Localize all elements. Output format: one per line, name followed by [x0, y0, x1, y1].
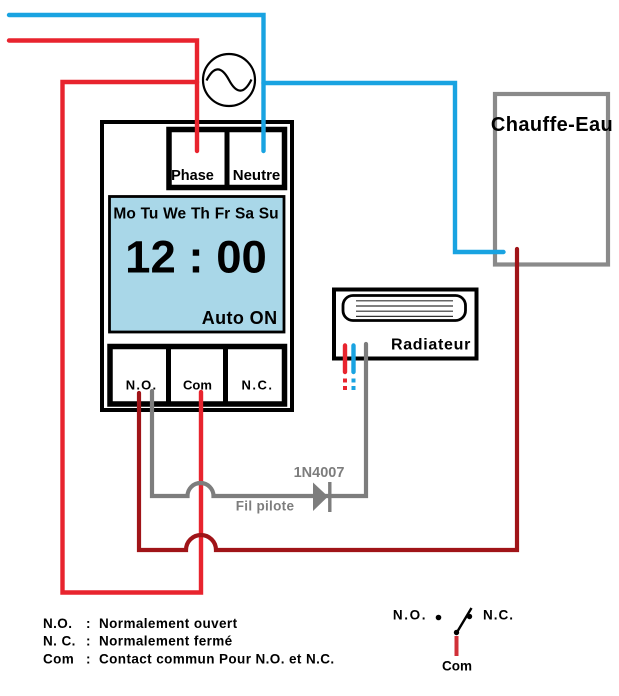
timer outer box: [102, 122, 292, 410]
svg-text:Auto ON: Auto ON: [202, 308, 278, 328]
Chauffe-Eau box: [495, 94, 608, 265]
svg-text:Radiateur: Radiateur: [391, 337, 471, 354]
terminal block N.O./Com/N.C.: [110, 347, 285, 405]
svg-text:Mo Tu We Th Fr Sa Su: Mo Tu We Th Fr Sa Su: [113, 206, 278, 223]
switch symbol: Com wire (red): [455, 636, 459, 656]
radiator heating element: [343, 296, 466, 321]
svg-text:1N4007: 1N4007: [294, 465, 345, 481]
radiator box: [334, 290, 477, 359]
wire: phase feed (red) from mains to Phase terminal: [9, 41, 197, 152]
svg-text:N.C.: N.C.: [483, 608, 514, 623]
wire: neutral feed (blue) from mains to Neutre terminal: [9, 15, 264, 151]
switch symbol: N.O. contact dot: [436, 615, 442, 621]
svg-text:Chauffe-Eau: Chauffe-Eau: [491, 114, 613, 136]
svg-text:N.O.:Normalement ouvert: N.O.:Normalement ouvert: [43, 616, 238, 631]
wire: N.O. to Chauffe-Eau (dark red) with hop over Com wire: [139, 249, 517, 550]
svg-text:N.C.: N.C.: [242, 378, 274, 393]
svg-text:Neutre: Neutre: [233, 167, 281, 184]
wire: phase branch (red) down left side to Com terminal: [63, 82, 202, 593]
AC source: [203, 54, 255, 106]
wire: radiator phase stub (red) with dotted continuation: [343, 346, 347, 391]
wire: fil pilote (gray) from N.O. block with hop over Com wire: [152, 344, 366, 496]
terminal block Phase/Neutre: [169, 130, 285, 188]
LCD display: [110, 197, 285, 333]
diode D1 1N4007: [313, 482, 330, 512]
svg-text:Com:Contact commun Pour N.O. e: Com:Contact commun Pour N.O. et N.C.: [43, 652, 335, 667]
wire: radiator neutral stub (blue) with dotted continuation: [352, 346, 356, 391]
svg-text:Com: Com: [183, 378, 212, 393]
svg-text:N. C.:Normalement fermé: N. C.:Normalement fermé: [43, 634, 233, 649]
svg-text:Phase: Phase: [171, 168, 214, 184]
svg-text:Com: Com: [442, 659, 472, 674]
wire: neutral branch (blue) to Chauffe-Eau: [264, 83, 504, 252]
svg-text:N.O.: N.O.: [393, 608, 427, 623]
svg-text:Fil pilote: Fil pilote: [236, 499, 295, 514]
svg-text:12 : 00: 12 : 00: [125, 232, 267, 283]
switch symbol: lever: [454, 608, 472, 635]
